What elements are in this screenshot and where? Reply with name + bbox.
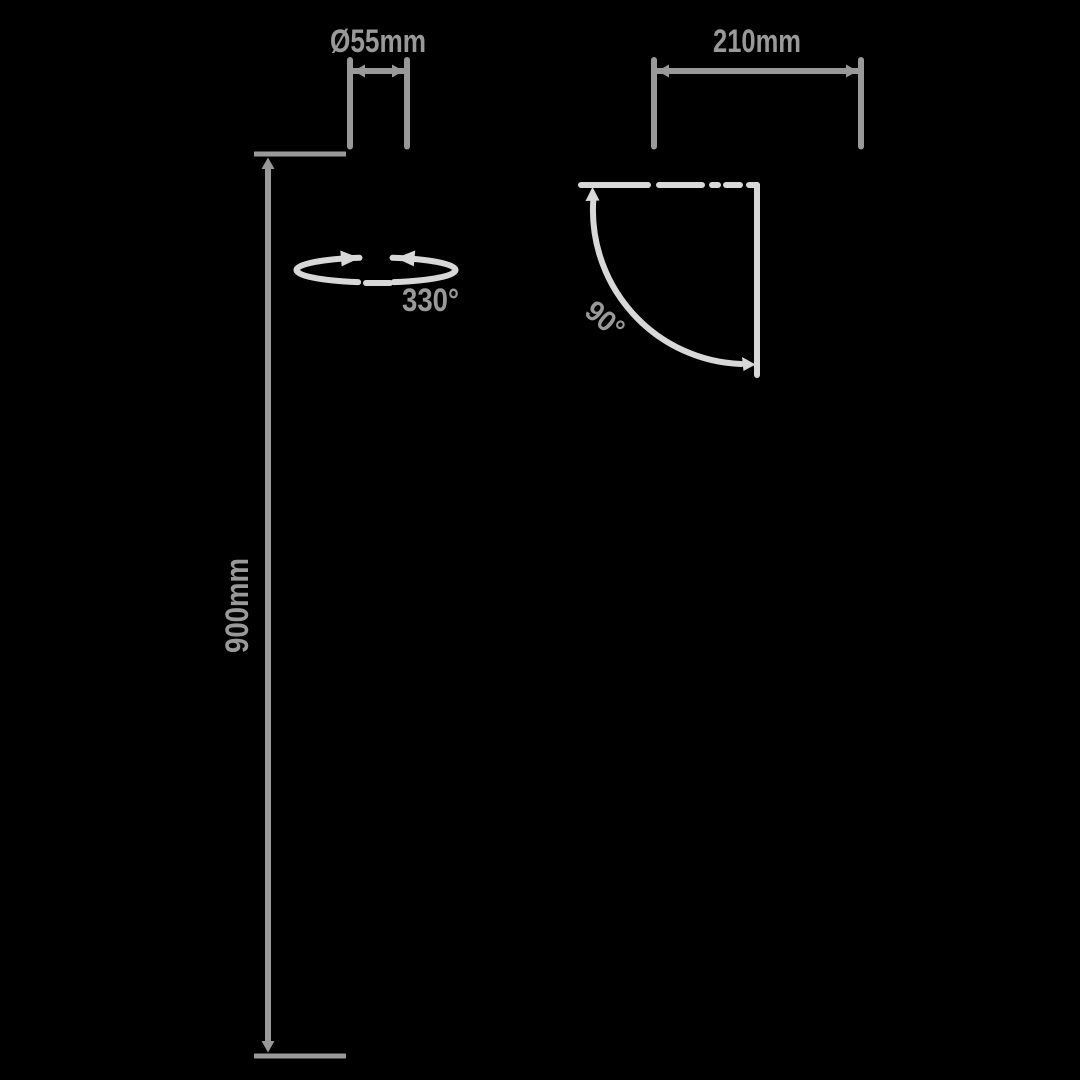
tilt arc bottom arrowhead <box>742 357 756 371</box>
dim D55 right arrowhead <box>392 65 404 78</box>
dim D55 horizontal line <box>353 68 404 74</box>
dim 210 left arrowhead <box>658 65 670 78</box>
svg-text:330°: 330° <box>402 282 459 318</box>
dim 210 horizontal line <box>657 68 858 74</box>
rotation left arrowhead <box>340 249 360 267</box>
tilt vertical line <box>754 185 760 375</box>
dim 210 right arrowhead <box>846 65 858 78</box>
svg-text:Ø55mm: Ø55mm <box>330 23 426 59</box>
dim 210 left extension line <box>651 60 657 147</box>
dim 900 bottom tick <box>254 1054 346 1059</box>
rotation ellipse left arc <box>296 258 359 282</box>
tilt arc <box>593 197 741 364</box>
tilt dashed horizontal line <box>581 182 757 188</box>
svg-text:900mm: 900mm <box>219 558 255 653</box>
rotation ellipse bottom dash <box>366 280 390 286</box>
dim 210 right extension line <box>858 60 864 147</box>
dim D55 left arrowhead <box>354 65 366 78</box>
rotation right arrowhead <box>395 249 415 267</box>
dim D55 right extension line <box>404 60 410 147</box>
dim 900 vertical line <box>265 165 271 1045</box>
dim 900 top arrowhead <box>262 158 275 170</box>
dim D55 left extension line <box>347 60 353 147</box>
rotation ellipse right arc <box>393 258 456 282</box>
svg-text:210mm: 210mm <box>713 23 801 59</box>
dim 900 bottom arrowhead <box>262 1041 275 1053</box>
tilt arc top arrowhead <box>586 187 600 201</box>
dim 900 top tick <box>254 152 346 157</box>
